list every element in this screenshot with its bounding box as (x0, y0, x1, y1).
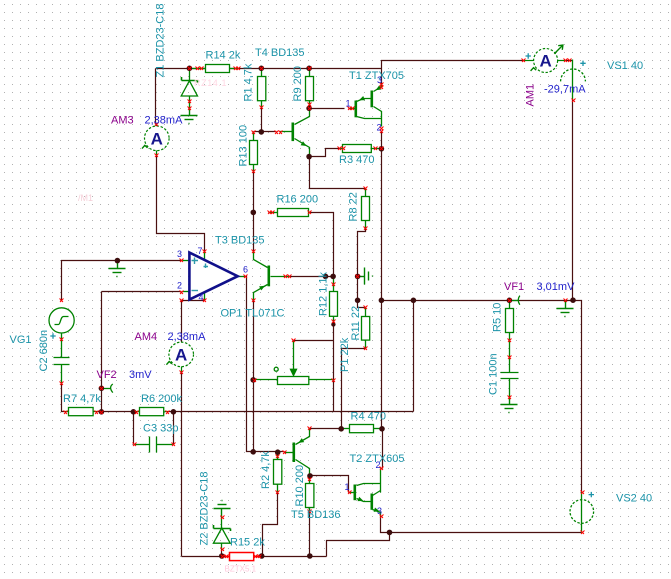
node T3 base b / R16 / R12 (330, 274, 336, 280)
wire R8 bottom jog down to ground node (358, 229, 366, 301)
svg-text:P1 22k: P1 22k (339, 337, 351, 372)
capacitor C2 680n (54, 340, 70, 384)
ammeter AM4 (166, 342, 193, 373)
node top rail Z1 (187, 66, 193, 72)
wire op-amp pin3 from VG1 column (62, 261, 182, 301)
ammeter AM3 (142, 124, 169, 156)
resistor R13 100 (250, 132, 258, 172)
svg-text:R15 2k: R15 2k (230, 537, 265, 549)
ground right of R8 node (rotated) (358, 268, 373, 285)
resistor R10 200 (306, 476, 314, 511)
node C output to pot (411, 298, 417, 304)
svg-text:VS2 40: VS2 40 (616, 493, 652, 505)
ground right node near VF1 (557, 301, 574, 317)
generator VG1 (49, 308, 74, 340)
wire out rail from column B to right node (382, 300, 573, 302)
wire T4 base node left to R13 and right to T4 (254, 131, 277, 133)
wire R16 node down to T3 collector (253, 213, 255, 252)
node R4 left (338, 426, 344, 432)
resistor R12 1,1k (330, 277, 338, 321)
node B output column (379, 298, 385, 304)
op-amp plus supply mark (204, 264, 209, 269)
svg-text:4: 4 (199, 293, 204, 303)
wire bottom rail from AM4 drop through R15 to step (182, 556, 327, 558)
wire T5 collector node right to T2 base (311, 476, 349, 493)
node VF2 (99, 386, 105, 392)
resistor R15 2k (selected, red) (222, 553, 262, 561)
svg-text:C1 100n: C1 100n (488, 353, 500, 395)
wire VS1 bottom down to right node (572, 100, 574, 301)
wire Z2 anode to bottom rail (221, 550, 223, 557)
resistor R5 10 (506, 301, 514, 341)
svg-text:2: 2 (376, 460, 381, 470)
svg-text:R11 22: R11 22 (350, 306, 362, 341)
svg-text:A: A (175, 346, 187, 365)
node R15 right (259, 553, 265, 559)
wire T5 emitter right to R4 left node (310, 428, 342, 430)
svg-text:3mV: 3mV (129, 369, 152, 381)
resistor R11 22 (362, 308, 370, 349)
svg-text:T4 BD135: T4 BD135 (255, 47, 305, 59)
svg-text:-29,7mA: -29,7mA (544, 84, 586, 96)
svg-text:AM3: AM3 (111, 115, 134, 127)
svg-text:VG1: VG1 (10, 334, 32, 346)
resistor R3 470 (340, 145, 382, 153)
transistor T1 ZTX705 pnp darlington (350, 85, 382, 127)
svg-text:A: A (539, 52, 551, 71)
transistor T2 ZTX605 npn darlington (350, 469, 381, 517)
transistor T4 BD135 npn (280, 109, 310, 157)
node T2 emitter rail (387, 530, 393, 536)
svg-text:R16 200: R16 200 (277, 194, 319, 206)
wire output column up from R6 rail to out node (413, 301, 415, 412)
wire T3 emitter down to T5 base rail (253, 301, 255, 452)
resistor R4 470 (342, 425, 383, 433)
svg-text:C3 33p: C3 33p (143, 423, 178, 435)
svg-text:2,38mA: 2,38mA (145, 115, 184, 127)
svg-text:2: 2 (177, 281, 182, 291)
svg-text:AM1: AM1 (525, 84, 537, 107)
wire R11 bottom L down to R4 left node (342, 349, 366, 429)
node pot left (250, 377, 256, 383)
potentiometer P1 22k body (255, 341, 334, 385)
svg-text:Z2 BZD23-C18: Z2 BZD23-C18 (199, 472, 211, 546)
node R3 right / T1 collector (379, 146, 385, 152)
svg-text:3: 3 (377, 75, 382, 85)
voltage probe VF2 (102, 384, 113, 393)
svg-text:R5 10: R5 10 (492, 303, 504, 332)
op-amp OP1 TL071C pin stubs (183, 252, 246, 301)
svg-text:6: 6 (243, 265, 248, 275)
svg-text:R12 1,1k: R12 1,1k (318, 271, 330, 316)
wire left drop from top rail to AM3 (155, 69, 157, 125)
svg-text:2,38mA: 2,38mA (168, 331, 207, 343)
capacitor C1 100n (501, 341, 519, 397)
svg-text:R8 22: R8 22 (348, 192, 360, 221)
wire C3 right leg (173, 412, 175, 445)
svg-text:R10 200: R10 200 (294, 465, 306, 507)
capacitor C3 33p (134, 437, 173, 453)
node R7/R6 (99, 409, 105, 415)
wire C3 left leg (133, 412, 135, 445)
wire pot right leg down to R6 rail (333, 380, 335, 412)
node pin3 ground (115, 258, 121, 264)
ground above Z2 (rotated 180) (214, 501, 231, 518)
svg-text:OP1 TL071C: OP1 TL071C (221, 308, 285, 320)
wire op-amp out down and right to T5 base rail (246, 277, 254, 452)
resistor R2 4,7k (274, 453, 282, 492)
node R1/R13/T4 base (259, 129, 265, 135)
wire R4 right node down to T2 collector (382, 429, 384, 469)
wire AM4 bottom drop (181, 373, 183, 557)
wire T4 emitter node down-right to R8 top (310, 157, 366, 189)
svg-text:7: 7 (198, 246, 203, 256)
node R13/R16 (251, 210, 257, 216)
wire T1 collector to R3 node (381, 132, 383, 149)
wire R16 right L up top (311, 213, 334, 277)
wire out node B column from R3 down to R4 node (381, 149, 383, 429)
ground below C1 (501, 397, 518, 413)
wire T5 base rail (254, 451, 285, 453)
svg-text:R6 200k: R6 200k (141, 393, 182, 405)
node R4 right (379, 426, 385, 432)
op-amp OP1 TL071C triangle (189, 253, 237, 300)
wire C2 bottom to R7 left (62, 384, 66, 412)
wire T1 emitter jog up and right to AM1 (382, 61, 524, 85)
node T3 base a (323, 274, 329, 280)
node R10 bottom rail (307, 553, 313, 559)
node R8 ground (355, 274, 361, 280)
node T5 base / R2 (275, 449, 281, 455)
wire right node over to VS2 column and down (573, 301, 582, 493)
transistor T5 BD136 pnp mirrored (285, 429, 310, 476)
svg-text:3,01mV: 3,01mV (537, 281, 576, 293)
node op out / T3 emitter (250, 449, 256, 455)
ground at op-amp pin3 rail (109, 261, 126, 277)
node T5 collector / R10 (307, 473, 313, 479)
ammeter AM1 (524, 45, 566, 72)
svg-text:3: 3 (377, 506, 382, 516)
svg-text:T3 BD135: T3 BD135 (215, 235, 265, 247)
svg-text:VF2: VF2 (97, 369, 117, 381)
voltage source VS1 40 (561, 60, 586, 100)
wire feedback column VF2/R7 node up to pin2 (101, 292, 103, 412)
node right ground (570, 297, 576, 303)
svg-text:R3 470: R3 470 (339, 154, 374, 166)
wire AM1 to VS1 top (566, 60, 573, 62)
wire bottom left rail R7 to R6 to pot/output column (97, 411, 137, 413)
svg-text:1: 1 (345, 482, 350, 492)
wire T2 emitter down to bottom right rail (381, 517, 390, 533)
node A R8/R11 (355, 298, 361, 304)
resistor R8 22 (362, 189, 370, 229)
svg-text:C2 680n: C2 680n (38, 330, 50, 372)
wire R10 bottom to bottom rail (309, 511, 311, 557)
wire VS2 bottom left along bottom right rail (390, 532, 582, 534)
svg-text:A: A (151, 129, 163, 148)
svg-text:/M1: /M1 (78, 193, 93, 203)
zener diode Z2 BZD23-C18 (213, 518, 230, 550)
svg-text:RZ14.1: RZ14.1 (194, 78, 227, 88)
wire T4 emitter node right-up to R3 left (310, 149, 340, 157)
wire op-amp pin2 from feedback column (102, 291, 182, 293)
op-amp minus input mark (192, 290, 199, 292)
wire bottom step from R15 rail up to T2 emitter node (327, 533, 390, 557)
svg-text:VF1: VF1 (504, 281, 524, 293)
resistor R1 4,7k (258, 69, 266, 108)
svg-text:T5 BD136: T5 BD136 (291, 509, 341, 521)
wire op-amp pin4 to AM4 top (182, 301, 205, 343)
resistor R9 200 (306, 69, 314, 109)
svg-text:R9 200: R9 200 (292, 66, 304, 101)
svg-text:2: 2 (377, 123, 382, 133)
node top rail R9 (306, 66, 312, 72)
svg-text:R14 2k: R14 2k (206, 50, 241, 62)
node Z2 anode (219, 553, 225, 559)
wire AM3 bottom L to op-amp pin7 (157, 156, 205, 252)
svg-text:R4 470: R4 470 (351, 411, 386, 423)
wire top rail from Z1 to T1 emitter column (156, 68, 382, 70)
node T4 emitter (306, 154, 312, 160)
svg-text:R2 4,7k: R2 4,7k (260, 451, 272, 489)
wire R9 bottom node right to T1 base (310, 108, 345, 110)
node C3 left (131, 409, 137, 415)
voltage probe VF1 (510, 296, 520, 305)
wire pot wiper L right to R12 column (294, 340, 334, 342)
ground below Z1 (181, 108, 198, 124)
svg-text:Z1 BZD23-C18: Z1 BZD23-C18 (155, 4, 167, 78)
node R12 bottom (331, 322, 335, 326)
wire R2 bottom L to bottom rail (263, 492, 278, 557)
voltage source VS2 40 (570, 493, 594, 533)
resistor R14 2k (190, 65, 239, 73)
svg-text:1: 1 (346, 99, 351, 109)
transistor T3 BD135 npn mirrored (254, 252, 291, 301)
wire R1 bottom to T4 base node (261, 108, 263, 132)
resistor R7 4,7k (66, 408, 97, 416)
svg-text:BZTX5.1: BZTX5.1 (225, 565, 257, 574)
wire T3 base rail to R12 node (291, 276, 334, 278)
zener diode Z1 BZD23-C18 (181, 69, 197, 108)
svg-text:VS1 40: VS1 40 (607, 60, 643, 72)
svg-text:AM4: AM4 (135, 331, 158, 343)
node R9 bottom / T1 base (306, 106, 312, 112)
svg-text:R1 4,7k: R1 4,7k (243, 63, 255, 101)
svg-text:3: 3 (177, 249, 182, 259)
node VF1 (507, 298, 513, 304)
wire R12 bottom down to pot right (333, 321, 335, 380)
wire R13 bottom down to R16 node (253, 172, 255, 213)
resistor R6 200k (137, 408, 168, 416)
wire ground node down to R11 top (358, 301, 365, 308)
op-amp plus input mark (192, 258, 199, 265)
svg-text:R13 100: R13 100 (238, 125, 250, 167)
resistor R16 200 (269, 209, 311, 217)
svg-text:R7 4,7k: R7 4,7k (63, 393, 101, 405)
node top rail R1 (259, 66, 265, 72)
node C3 right (171, 409, 177, 415)
